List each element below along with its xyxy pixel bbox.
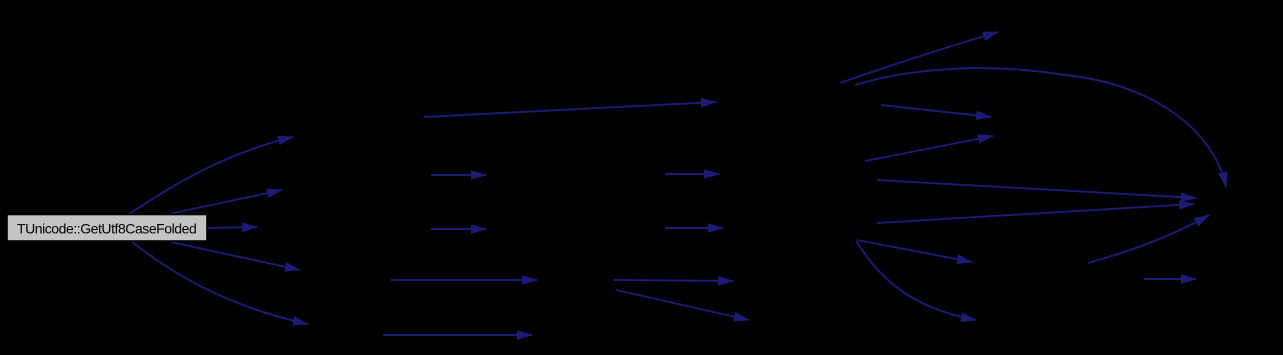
edge E12: horizontal row335 left	[383, 334, 532, 336]
edge E16: big arc to far right node	[855, 68, 1226, 187]
edge E3: main node to node row227	[207, 227, 257, 228]
edge E18: line to row136	[865, 136, 993, 161]
edge E19: long line to far right upper	[877, 180, 1196, 198]
node: TUnicode::GetUtf8CaseFolded	[7, 215, 207, 242]
edge E8: short arrow col2-col3 row229	[431, 228, 486, 230]
edge E9: short arrow col3-col4 row174	[665, 173, 719, 175]
edge E1: main node to node row137	[129, 137, 293, 214]
svg-text:TUnicode::GetUtf8CaseFolded: TUnicode::GetUtf8CaseFolded	[17, 221, 196, 237]
edge E13: horizontal row280 right	[614, 280, 733, 281]
edge E22: s-curve down to row320	[856, 241, 976, 320]
edge E21: line to row262	[857, 240, 972, 262]
edge E17: line to row117	[881, 105, 991, 117]
edge E10: short arrow col3-col4 row228	[665, 227, 723, 229]
edge E4: main node to node row270	[171, 242, 300, 270]
edge E14: diagonal down to row320	[616, 290, 749, 320]
edge E2: main node to node row190	[169, 190, 282, 214]
edge E6: long line col2 to col4 top	[424, 102, 716, 117]
edge E23: curve up to far right node bottom	[1088, 215, 1209, 263]
edge E15: up-right to row32	[840, 32, 998, 83]
edge E20: long line to far right lower	[877, 204, 1194, 223]
edge E7: short arrow col2-col3 row175	[431, 174, 486, 176]
edge E11: horizontal row280 left	[391, 279, 537, 281]
edge E24: short arrow row279 far right	[1144, 278, 1196, 280]
edge E5: main node to node row324	[131, 241, 308, 324]
